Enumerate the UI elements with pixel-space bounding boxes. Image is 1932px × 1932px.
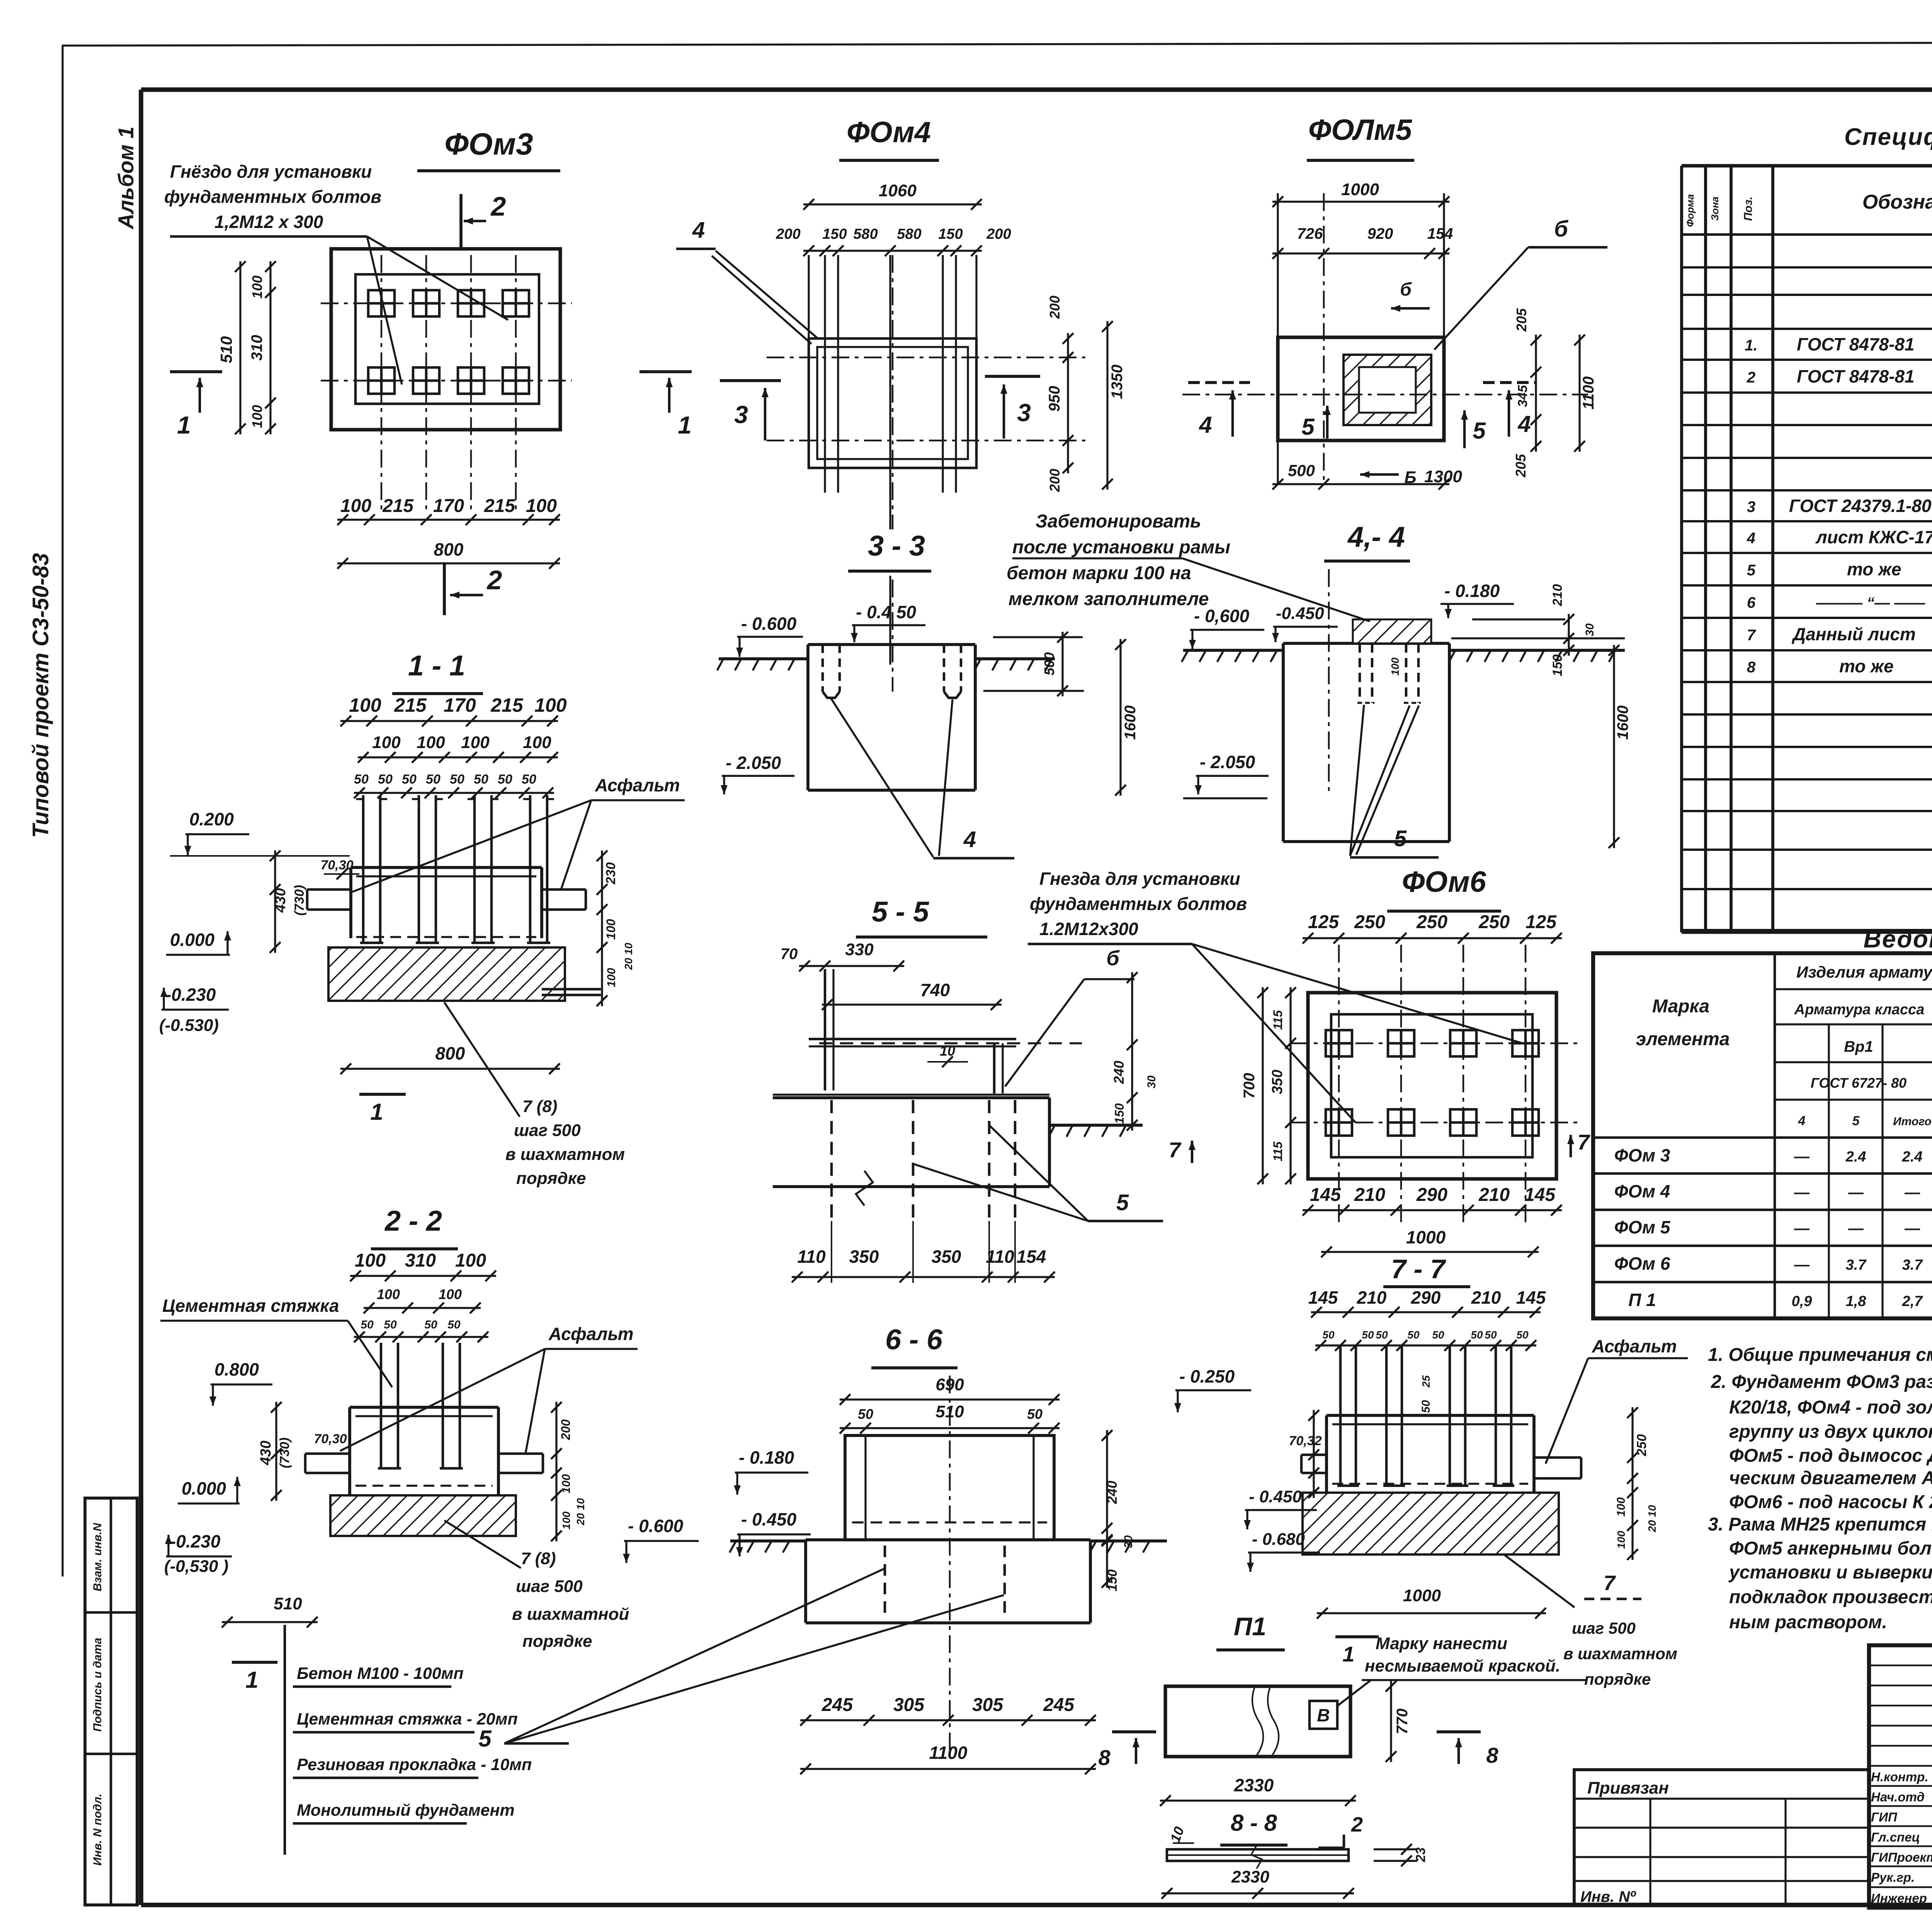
svg-text:200: 200 — [559, 1419, 573, 1440]
svg-text:30: 30 — [1583, 623, 1596, 636]
svg-text:1350: 1350 — [1109, 365, 1126, 399]
svg-text:элемента: элемента — [1636, 1029, 1730, 1049]
svg-text:Рук.гр.: Рук.гр. — [1871, 1870, 1915, 1884]
svg-text:Инв. Nº: Инв. Nº — [1580, 1888, 1636, 1905]
svg-text:205: 205 — [1514, 308, 1529, 332]
svg-text:170: 170 — [433, 496, 464, 516]
svg-text:100: 100 — [377, 1286, 400, 1302]
svg-text:50: 50 — [1432, 1329, 1444, 1341]
svg-text:после установки рамы: после установки рамы — [1012, 537, 1230, 558]
svg-text:50: 50 — [384, 1318, 397, 1331]
svg-text:ФОм6: ФОм6 — [1402, 866, 1486, 898]
svg-text:50: 50 — [1471, 1329, 1483, 1341]
svg-text:1,8: 1,8 — [1846, 1293, 1867, 1310]
svg-text:430: 430 — [258, 1440, 274, 1465]
svg-text:Бетон М100 - 100мп: Бетон М100 - 100мп — [297, 1664, 464, 1683]
svg-text:100: 100 — [1389, 657, 1401, 675]
svg-text:0.800: 0.800 — [214, 1359, 259, 1379]
svg-text:(-0.530): (-0.530) — [159, 1016, 219, 1035]
svg-text:2. Фундамент ФОм3 разработан: 2. Фундамент ФОм3 разработан под насосы — [1711, 1372, 1932, 1392]
svg-text:30: 30 — [1122, 1535, 1135, 1548]
svg-text:Обозначение: Обозначение — [1862, 191, 1932, 213]
svg-text:Форма: Форма — [1684, 194, 1696, 227]
svg-text:2: 2 — [1747, 369, 1755, 386]
svg-text:в шахматной: в шахматной — [512, 1605, 629, 1624]
svg-text:1,2М12 х 300: 1,2М12 х 300 — [214, 212, 323, 232]
svg-text:100: 100 — [372, 733, 401, 752]
svg-text:б: б — [1554, 216, 1569, 241]
svg-text:ческим двигателем А02-62-6,: ческим двигателем А02-62-6, — [1729, 1468, 1932, 1488]
svg-text:100: 100 — [439, 1286, 462, 1302]
svg-text:ГОСТ 6727- 80: ГОСТ 6727- 80 — [1811, 1075, 1906, 1091]
svg-text:ФОм 6: ФОм 6 — [1614, 1253, 1670, 1274]
svg-text:145: 145 — [1310, 1185, 1341, 1205]
svg-text:770: 770 — [1394, 1709, 1411, 1735]
svg-text:150: 150 — [822, 226, 847, 242]
svg-text:145: 145 — [1516, 1287, 1546, 1308]
svg-text:215: 215 — [490, 694, 524, 716]
svg-text:- 0.450: - 0.450 — [1249, 1487, 1302, 1506]
svg-text:ФОм6 - под насосы К 20/30.: ФОм6 - под насосы К 20/30. — [1729, 1492, 1932, 1512]
svg-text:100: 100 — [526, 496, 557, 516]
svg-text:—: — — [1794, 1220, 1810, 1237]
svg-text:50: 50 — [522, 772, 536, 787]
svg-text:200: 200 — [986, 226, 1011, 242]
svg-text:подкладок произвести подливк: подкладок произвести подливку цемент- — [1729, 1587, 1932, 1607]
svg-text:4: 4 — [1798, 1114, 1806, 1128]
svg-text:150: 150 — [1112, 1103, 1126, 1124]
svg-text:50: 50 — [474, 772, 488, 787]
svg-text:920: 920 — [1367, 225, 1393, 242]
svg-text:70,32: 70,32 — [1289, 1434, 1321, 1448]
svg-text:- 2.050: - 2.050 — [1200, 752, 1255, 772]
svg-text:3.7: 3.7 — [1846, 1257, 1867, 1273]
svg-text:154: 154 — [1427, 225, 1453, 242]
svg-text:—: — — [1848, 1220, 1864, 1237]
svg-text:210: 210 — [1471, 1287, 1501, 1308]
svg-text:100: 100 — [340, 496, 371, 516]
svg-text:150: 150 — [938, 226, 963, 242]
svg-text:100: 100 — [604, 919, 618, 940]
svg-text:1: 1 — [370, 1099, 383, 1125]
svg-text:4,- 4: 4,- 4 — [1347, 521, 1405, 553]
svg-text:290: 290 — [1416, 1185, 1447, 1205]
svg-text:100: 100 — [605, 968, 618, 987]
svg-text:- 0.450: - 0.450 — [741, 1509, 797, 1529]
svg-text:- 0.600: - 0.600 — [741, 614, 797, 634]
svg-text:5: 5 — [1852, 1114, 1860, 1128]
svg-text:ФОм5 анкерными болтами МН25.: ФОм5 анкерными болтами МН25. После — [1729, 1538, 1932, 1559]
svg-text:8: 8 — [1486, 1743, 1498, 1767]
svg-text:25: 25 — [1420, 1375, 1432, 1388]
svg-text:7: 7 — [1604, 1571, 1616, 1595]
svg-text:245: 245 — [1043, 1695, 1075, 1715]
svg-text:580: 580 — [897, 226, 921, 242]
svg-text:215: 215 — [484, 496, 515, 516]
svg-text:2330: 2330 — [1234, 1775, 1274, 1795]
svg-text:740: 740 — [920, 980, 950, 1000]
svg-text:70,30: 70,30 — [314, 1432, 347, 1446]
svg-text:ГИПроект: ГИПроект — [1871, 1850, 1932, 1864]
svg-text:145: 145 — [1308, 1287, 1338, 1308]
svg-text:- 0.250: - 0.250 — [1179, 1366, 1235, 1386]
svg-text:——— “— ——: ——— “— —— — [1816, 594, 1925, 611]
svg-text:- 2.050: - 2.050 — [726, 753, 781, 773]
svg-text:ГОСТ 24379.1-80: ГОСТ 24379.1-80 — [1789, 496, 1932, 516]
svg-text:250: 250 — [1416, 912, 1447, 932]
svg-text:бетон марки 100 на: бетон марки 100 на — [1007, 563, 1191, 583]
svg-text:- 0.600: - 0.600 — [628, 1516, 684, 1536]
svg-text:50: 50 — [426, 772, 440, 787]
svg-text:-0.450: -0.450 — [1276, 604, 1324, 623]
svg-text:50: 50 — [1322, 1329, 1335, 1341]
svg-text:0.200: 0.200 — [189, 809, 234, 829]
svg-text:100: 100 — [1615, 1531, 1627, 1549]
svg-text:—: — — [1794, 1148, 1810, 1165]
svg-text:3: 3 — [1017, 399, 1031, 427]
svg-text:1 - 1: 1 - 1 — [408, 650, 465, 682]
svg-text:Монолитный фундамент: Монолитный фундамент — [297, 1801, 515, 1820]
svg-text:4: 4 — [1747, 530, 1755, 547]
svg-text:50: 50 — [1376, 1329, 1388, 1341]
svg-text:1060: 1060 — [879, 181, 917, 200]
svg-text:5: 5 — [1301, 414, 1315, 440]
svg-text:П1: П1 — [1234, 1612, 1266, 1641]
svg-text:200: 200 — [776, 226, 800, 242]
svg-text:100: 100 — [355, 1250, 386, 1271]
svg-text:125: 125 — [1526, 912, 1557, 932]
svg-text:310: 310 — [248, 335, 265, 361]
svg-text:Привязан: Привязан — [1587, 1779, 1669, 1798]
svg-text:305: 305 — [893, 1695, 925, 1715]
svg-text:700: 700 — [1241, 1073, 1258, 1099]
svg-text:50: 50 — [354, 772, 369, 787]
svg-text:100: 100 — [455, 1250, 486, 1271]
svg-text:50: 50 — [1485, 1329, 1497, 1341]
svg-text:Инженер: Инженер — [1871, 1891, 1927, 1905]
svg-text:50: 50 — [447, 1318, 461, 1331]
svg-text:1.2М12х300: 1.2М12х300 — [1039, 919, 1138, 939]
svg-text:ФОЛм5: ФОЛм5 — [1308, 114, 1413, 146]
svg-text:Данный лист: Данный лист — [1791, 624, 1916, 644]
svg-text:3.7: 3.7 — [1902, 1257, 1923, 1273]
svg-text:210: 210 — [1354, 1185, 1385, 1205]
svg-text:2 - 2: 2 - 2 — [384, 1205, 442, 1237]
svg-text:3: 3 — [1747, 498, 1755, 515]
svg-text:Изделия арматурные: Изделия арматурные — [1796, 963, 1932, 981]
svg-text:210: 210 — [1550, 584, 1565, 607]
svg-text:то же: то же — [1847, 559, 1901, 579]
svg-text:Спецификация монолитных фунд: Спецификация монолитных фундаментов — [1844, 124, 1932, 150]
svg-text:В: В — [1317, 1705, 1330, 1725]
svg-text:310: 310 — [405, 1250, 436, 1271]
svg-text:порядке: порядке — [1584, 1670, 1651, 1688]
svg-text:Нач.отд: Нач.отд — [1871, 1790, 1925, 1804]
svg-text:100: 100 — [417, 733, 445, 752]
svg-text:(-0,530 ): (-0,530 ) — [164, 1557, 228, 1576]
svg-text:б: б — [1400, 279, 1412, 300]
svg-text:Резиновая прокладка - 10мп: Резиновая прокладка - 10мп — [297, 1755, 532, 1774]
svg-text:-0.230: -0.230 — [170, 1531, 221, 1551]
svg-text:ГИП: ГИП — [1871, 1810, 1898, 1824]
svg-text:50: 50 — [1362, 1329, 1374, 1341]
svg-text:(730): (730) — [277, 1437, 292, 1468]
svg-text:—: — — [1904, 1220, 1920, 1237]
svg-text:145: 145 — [1524, 1185, 1556, 1205]
svg-text:7: 7 — [1168, 1138, 1182, 1162]
svg-text:2330: 2330 — [1231, 1867, 1269, 1886]
svg-text:7 (8): 7 (8) — [522, 1097, 557, 1116]
svg-text:Марка: Марка — [1652, 996, 1709, 1017]
svg-text:350: 350 — [1269, 1070, 1286, 1094]
svg-text:1000: 1000 — [1341, 180, 1379, 199]
svg-text:0.000: 0.000 — [182, 1478, 226, 1498]
svg-text:2.4: 2.4 — [1902, 1149, 1923, 1165]
svg-text:шаг 500: шаг 500 — [514, 1121, 581, 1140]
svg-text:200: 200 — [1047, 469, 1063, 492]
svg-text:5: 5 — [1116, 1190, 1129, 1215]
svg-text:Цементная стяжка: Цементная стяжка — [162, 1296, 339, 1316]
svg-text:1: 1 — [678, 411, 692, 439]
svg-text:50: 50 — [498, 772, 512, 787]
svg-text:—: — — [1794, 1256, 1810, 1273]
svg-text:50: 50 — [858, 1406, 873, 1422]
svg-text:ным раствором.: ным раствором. — [1729, 1612, 1887, 1633]
svg-text:установки и выверки рамы п: установки и выверки рамы при помощи — [1728, 1562, 1932, 1583]
svg-text:210: 210 — [1357, 1287, 1387, 1308]
svg-text:Н.контр.: Н.контр. — [1871, 1770, 1928, 1784]
svg-text:1: 1 — [177, 411, 191, 439]
svg-text:250: 250 — [1354, 912, 1385, 932]
svg-text:2,7: 2,7 — [1902, 1293, 1923, 1310]
svg-text:726: 726 — [1297, 225, 1323, 242]
svg-text:3. Рама МН25 крепится к фун: 3. Рама МН25 крепится к фундаменту — [1708, 1514, 1932, 1535]
svg-text:- 0.180: - 0.180 — [1444, 581, 1500, 601]
svg-text:ФОм5 - под дымосос Д.Н-9 с: ФОм5 - под дымосос Д.Н-9 с электри- — [1729, 1446, 1932, 1466]
svg-text:Марку нанести: Марку нанести — [1376, 1634, 1507, 1653]
svg-text:50: 50 — [361, 1318, 374, 1331]
svg-text:Ведомость расхода стали на: Ведомость расхода стали на элемент, кг — [1864, 925, 1932, 953]
svg-text:1000: 1000 — [1406, 1227, 1446, 1247]
svg-text:Альбом 1: Альбом 1 — [114, 126, 138, 230]
svg-text:Итого: Итого — [1893, 1115, 1932, 1128]
svg-text:1600: 1600 — [1614, 706, 1631, 740]
svg-text:240: 240 — [1111, 1061, 1127, 1084]
svg-text:110: 110 — [797, 1247, 826, 1267]
svg-text:6: 6 — [1747, 594, 1756, 611]
svg-text:100: 100 — [560, 1511, 572, 1529]
svg-text:800: 800 — [434, 539, 464, 560]
svg-text:7: 7 — [1747, 627, 1756, 644]
svg-text:шаг 500: шаг 500 — [516, 1577, 583, 1596]
svg-text:50: 50 — [450, 772, 464, 787]
svg-text:100: 100 — [534, 694, 567, 716]
svg-text:100: 100 — [249, 405, 265, 428]
svg-text:210: 210 — [1478, 1185, 1510, 1205]
svg-text:- 0.180: - 0.180 — [739, 1447, 794, 1468]
svg-text:4: 4 — [692, 218, 705, 243]
svg-text:50: 50 — [402, 772, 417, 787]
svg-text:150: 150 — [1105, 1570, 1120, 1592]
svg-text:ФОм4: ФОм4 — [847, 116, 931, 149]
svg-text:1. Общие примечания см. на л: 1. Общие примечания см. на листе КЖС- 14… — [1708, 1345, 1932, 1365]
svg-text:Асфальт: Асфальт — [548, 1324, 634, 1344]
svg-text:345: 345 — [1515, 385, 1530, 407]
svg-text:б: б — [1106, 947, 1120, 970]
svg-text:7 (8): 7 (8) — [521, 1549, 556, 1568]
svg-text:150: 150 — [1550, 655, 1565, 677]
svg-text:1: 1 — [1342, 1642, 1354, 1666]
svg-text:0,9: 0,9 — [1792, 1293, 1812, 1310]
svg-text:70: 70 — [781, 946, 798, 963]
svg-text:мелком заполнителе: мелком заполнителе — [1009, 589, 1209, 609]
svg-text:100: 100 — [249, 276, 265, 299]
svg-text:Взам. инв.N: Взам. инв.N — [91, 1522, 104, 1591]
svg-text:70,30: 70,30 — [320, 858, 353, 872]
svg-text:2: 2 — [490, 191, 506, 221]
svg-text:Инв. N подл.: Инв. N подл. — [91, 1794, 104, 1866]
svg-text:Вр1: Вр1 — [1844, 1038, 1873, 1055]
svg-text:то же: то же — [1839, 656, 1894, 676]
svg-text:4: 4 — [1199, 412, 1212, 438]
svg-text:ФОм3: ФОм3 — [444, 127, 533, 161]
svg-text:5: 5 — [1747, 562, 1756, 579]
svg-text:100: 100 — [1615, 1497, 1628, 1517]
svg-text:500: 500 — [1288, 461, 1315, 480]
svg-text:3: 3 — [734, 401, 748, 429]
svg-text:лист КЖС-17: лист КЖС-17 — [1815, 527, 1932, 547]
svg-text:Асфальт: Асфальт — [595, 775, 680, 795]
svg-text:- 0.4 50: - 0.4 50 — [856, 602, 916, 622]
svg-text:205: 205 — [1513, 454, 1529, 478]
svg-text:290: 290 — [1411, 1287, 1441, 1308]
svg-text:2: 2 — [1351, 1813, 1363, 1836]
svg-text:115: 115 — [1271, 1141, 1285, 1161]
svg-text:350: 350 — [932, 1247, 961, 1267]
svg-text:ФОм 3: ФОм 3 — [1614, 1145, 1670, 1165]
svg-text:7: 7 — [1577, 1130, 1590, 1154]
svg-text:ГОСТ 8478-81: ГОСТ 8478-81 — [1797, 334, 1915, 354]
svg-text:170: 170 — [444, 694, 476, 716]
svg-text:—: — — [1904, 1184, 1920, 1201]
svg-text:-0.230: -0.230 — [165, 985, 216, 1005]
svg-text:Гл.спец: Гл.спец — [1871, 1830, 1920, 1844]
svg-text:20 10: 20 10 — [575, 1498, 587, 1526]
svg-text:215: 215 — [382, 496, 414, 516]
svg-text:фундаментных болтов: фундаментных болтов — [1030, 894, 1247, 914]
svg-text:8: 8 — [1747, 659, 1756, 676]
svg-text:порядке: порядке — [516, 1169, 586, 1188]
svg-text:100: 100 — [523, 733, 551, 752]
svg-text:Зона: Зона — [1709, 197, 1721, 221]
svg-text:5: 5 — [478, 1726, 492, 1752]
svg-text:50: 50 — [1516, 1329, 1529, 1341]
svg-text:Гнезда для установки: Гнезда для установки — [1039, 869, 1240, 889]
svg-text:в шахматном: в шахматном — [505, 1145, 625, 1164]
svg-text:950: 950 — [1046, 386, 1063, 412]
svg-text:7 - 7: 7 - 7 — [1391, 1254, 1446, 1284]
svg-text:0.000: 0.000 — [170, 930, 215, 950]
svg-text:группу из двух циклонов ЦН: группу из двух циклонов ЦН-15-500 х 2УП, — [1729, 1422, 1932, 1442]
svg-text:1: 1 — [245, 1667, 258, 1693]
svg-text:3 - 3: 3 - 3 — [868, 530, 925, 562]
svg-text:Типовой проект С3-50-83: Типовой проект С3-50-83 — [28, 553, 53, 838]
svg-text:50: 50 — [1027, 1406, 1043, 1422]
svg-text:20 10: 20 10 — [622, 943, 634, 970]
svg-text:250: 250 — [1478, 912, 1510, 932]
svg-text:Гнёздо для установки: Гнёздо для установки — [170, 162, 372, 182]
svg-text:(730): (730) — [292, 885, 307, 915]
svg-text:500: 500 — [1041, 652, 1057, 675]
svg-text:100: 100 — [349, 694, 381, 716]
svg-text:100: 100 — [560, 1474, 573, 1493]
svg-text:230: 230 — [604, 862, 618, 885]
svg-text:510: 510 — [217, 336, 235, 363]
svg-text:50: 50 — [424, 1318, 437, 1331]
svg-text:ФОм 5: ФОм 5 — [1614, 1217, 1671, 1237]
svg-text:Арматура класса: Арматура класса — [1794, 1002, 1925, 1018]
svg-text:8: 8 — [1098, 1745, 1111, 1770]
svg-text:4: 4 — [963, 827, 976, 852]
svg-text:10: 10 — [940, 1043, 955, 1059]
svg-text:ФОм 4: ФОм 4 — [1614, 1181, 1670, 1201]
svg-text:1.: 1. — [1745, 337, 1757, 354]
svg-text:510: 510 — [274, 1594, 302, 1613]
svg-text:8 - 8: 8 - 8 — [1231, 1810, 1277, 1836]
svg-text:1100: 1100 — [929, 1743, 968, 1763]
svg-text:6 - 6: 6 - 6 — [885, 1323, 943, 1355]
svg-text:30: 30 — [1145, 1075, 1158, 1088]
svg-text:—: — — [1794, 1184, 1810, 1201]
svg-text:215: 215 — [394, 694, 427, 716]
svg-text:—: — — [1848, 1184, 1864, 1201]
svg-text:фундаментных болтов: фундаментных болтов — [164, 187, 381, 207]
svg-text:100: 100 — [461, 733, 490, 752]
svg-text:110: 110 — [986, 1247, 1014, 1267]
svg-text:4: 4 — [1517, 411, 1531, 437]
svg-text:5: 5 — [1394, 826, 1407, 851]
svg-text:Поз.: Поз. — [1742, 196, 1755, 221]
svg-text:шаг 500: шаг 500 — [1572, 1619, 1636, 1637]
svg-text:330: 330 — [845, 940, 874, 959]
svg-text:несмываемой краской.: несмываемой краской. — [1365, 1656, 1560, 1675]
svg-text:ГОСТ 8478-81: ГОСТ 8478-81 — [1797, 366, 1915, 386]
svg-text:115: 115 — [1271, 1010, 1285, 1030]
svg-text:250: 250 — [1634, 1434, 1649, 1457]
svg-text:240: 240 — [1104, 1481, 1120, 1504]
svg-text:2.4: 2.4 — [1845, 1149, 1866, 1165]
svg-text:Забетонировать: Забетонировать — [1036, 511, 1201, 532]
svg-text:- 0.680: - 0.680 — [1252, 1530, 1305, 1549]
svg-text:50: 50 — [378, 772, 393, 787]
svg-text:Асфальт: Асфальт — [1592, 1336, 1677, 1356]
svg-text:305: 305 — [972, 1695, 1003, 1715]
svg-text:5: 5 — [1473, 418, 1486, 444]
svg-text:20 10: 20 10 — [1646, 1505, 1658, 1532]
svg-text:в шахматном: в шахматном — [1563, 1645, 1677, 1663]
svg-text:50: 50 — [1407, 1329, 1420, 1341]
svg-text:К20/18, ФОм4 - под золоулавл: К20/18, ФОм4 - под золоулавливающую — [1729, 1397, 1932, 1418]
svg-text:154: 154 — [1017, 1247, 1046, 1267]
svg-text:5 - 5: 5 - 5 — [872, 896, 930, 928]
svg-text:580: 580 — [853, 226, 878, 242]
svg-text:800: 800 — [435, 1043, 465, 1063]
svg-text:350: 350 — [849, 1247, 879, 1267]
svg-text:200: 200 — [1047, 296, 1063, 319]
svg-text:50: 50 — [1420, 1400, 1432, 1413]
svg-text:Подпись и дата: Подпись и дата — [91, 1638, 104, 1731]
svg-text:245: 245 — [821, 1695, 853, 1715]
